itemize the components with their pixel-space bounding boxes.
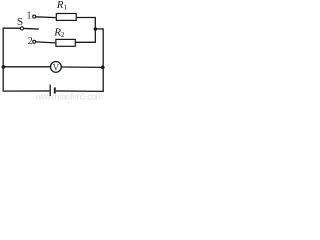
voltmeter V xyxy=(51,62,62,73)
svg-text:2: 2 xyxy=(28,36,33,47)
wire terminal1 to R1 xyxy=(36,16,57,19)
svg-text:www.manfen5.com: www.manfen5.com xyxy=(35,92,104,100)
wire junction A to right rail xyxy=(95,28,103,30)
terminal 1 xyxy=(33,15,36,18)
switch blade xyxy=(24,27,39,30)
svg-text:V: V xyxy=(53,62,60,72)
wire right rail xyxy=(102,28,104,91)
switch S pivot xyxy=(20,27,23,30)
node left voltmeter junction xyxy=(2,65,6,69)
resistor R1 xyxy=(56,14,76,21)
wire drop x95 xyxy=(94,17,96,43)
resistor R2 xyxy=(56,39,75,46)
terminal 2 xyxy=(33,40,36,43)
battery long plate xyxy=(49,85,51,97)
battery short plate xyxy=(54,87,56,93)
wire R1 to corner xyxy=(76,17,95,19)
wire battery to bottom right xyxy=(56,90,104,92)
node junction A xyxy=(94,27,98,31)
wire left rail xyxy=(2,28,4,92)
svg-text:1: 1 xyxy=(27,11,32,22)
svg-text:S: S xyxy=(17,16,23,28)
wire R2 to drop xyxy=(75,41,96,43)
wire left to voltmeter xyxy=(3,66,50,68)
wire switch feed (left rail to pivot) xyxy=(3,27,21,29)
node right voltmeter junction xyxy=(101,66,105,70)
wire voltmeter to right rail xyxy=(61,66,102,68)
wire bottom left to battery xyxy=(3,90,50,92)
wire terminal2 to R2 xyxy=(36,42,56,43)
